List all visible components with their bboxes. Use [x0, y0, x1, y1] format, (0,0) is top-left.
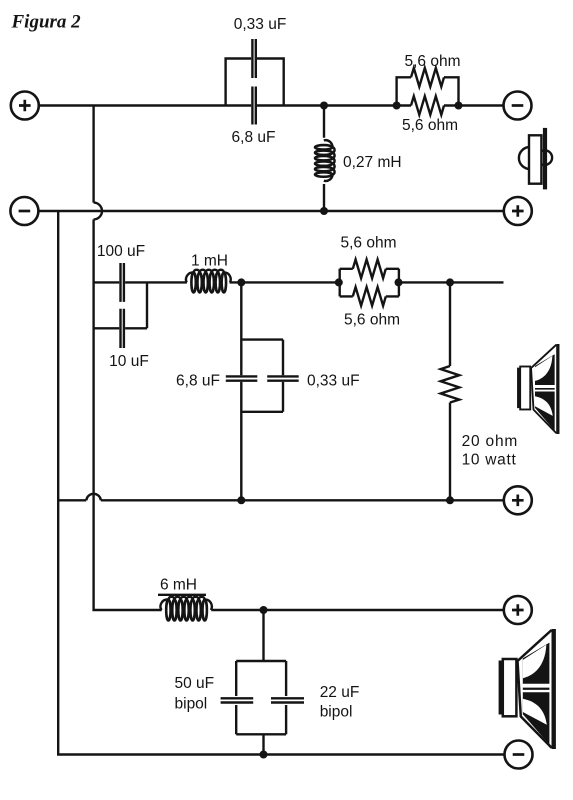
- wire vertical + feed upper part: [92, 106, 94, 203]
- capacitor C 0,33 uF (top loop branch): [226, 39, 284, 106]
- junction node midrange at 20 ohm: [446, 278, 454, 286]
- wire midrange row from + feed to 100uF: [94, 281, 120, 283]
- svg-text:20 ohm: 20 ohm: [462, 433, 518, 450]
- svg-text:10 uF: 10 uF: [109, 353, 149, 370]
- capacitor C 22 uF bipol (right branch): [271, 661, 304, 734]
- wire vertical + feed lower part turning into bass row: [94, 219, 162, 610]
- wire top row from resistor pair to - terminal: [444, 104, 504, 106]
- svg-text:0,33 uF: 0,33 uF: [234, 16, 287, 33]
- resistor 20 ohm 10 watt (vertical): [441, 282, 460, 500]
- svg-text:Figura 2: Figura 2: [11, 12, 82, 33]
- svg-text:0,33 uF: 0,33 uF: [307, 373, 360, 390]
- svg-text:6 mH: 6 mH: [160, 577, 197, 594]
- midrange speaker icon: [517, 344, 559, 434]
- junction node row2 at inductor: [320, 207, 328, 215]
- wire midrange cap block vertical feed: [240, 282, 242, 500]
- wire row2 from - terminal to + terminal: [38, 210, 503, 212]
- svg-text:6,8 uF: 6,8 uF: [176, 373, 220, 390]
- woofer speaker icon: [499, 629, 556, 749]
- capacitor C 0,33 uF (midrange parallel loop): [241, 340, 298, 412]
- inductor L 1 mH (horizontal): [186, 270, 231, 293]
- terminal - bottom right: [505, 741, 533, 769]
- capacitor C 10 uF (parallel branch): [94, 282, 147, 348]
- wire bass row from inductor to + terminal: [211, 609, 504, 611]
- svg-text:6,8 uF: 6,8 uF: [232, 129, 276, 146]
- svg-text:5,6 ohm: 5,6 ohm: [344, 312, 400, 329]
- svg-text:1 mH: 1 mH: [191, 253, 228, 270]
- svg-text:22 uF: 22 uF: [320, 684, 360, 701]
- wire bass cap block to bottom row: [262, 734, 264, 754]
- inductor L 0,27 mH (vertical): [315, 106, 335, 212]
- terminal - top right (tweeter): [504, 92, 532, 120]
- capacitor C 100 uF: [121, 263, 124, 302]
- svg-text:5,6 ohm: 5,6 ohm: [404, 53, 460, 70]
- junction node top resistor pair left: [393, 102, 401, 110]
- svg-text:bipol: bipol: [175, 696, 208, 713]
- wire top row from + terminal to capacitor block: [39, 104, 251, 106]
- resistor 5,6 ohm (top pair, lower, on wire): [411, 96, 444, 115]
- resistor 5,6 ohm (mid pair, lower): [340, 287, 399, 306]
- svg-text:bipol: bipol: [320, 704, 353, 721]
- terminal + right bass: [504, 596, 532, 624]
- junction node bass row at cap block: [260, 606, 268, 614]
- wire midrange row from 100uF to inductor: [125, 281, 187, 283]
- terminal + right midrange return: [504, 486, 532, 514]
- resistor 5,6 ohm (top pair, upper): [397, 68, 459, 106]
- svg-text:100 uF: 100 uF: [97, 243, 145, 260]
- svg-text:5,6 ohm: 5,6 ohm: [340, 235, 396, 252]
- terminal + top left: [11, 92, 39, 120]
- junction node bottom row at cap block: [260, 751, 268, 759]
- tweeter speaker icon: [519, 128, 552, 189]
- terminal + right row2 (tweeter): [504, 197, 532, 225]
- junction node midrange resistor pair left: [335, 278, 343, 286]
- svg-text:10 watt: 10 watt: [462, 452, 517, 469]
- junction node top resistor pair right: [455, 102, 463, 110]
- wire midrange return row left of hop: [58, 499, 86, 501]
- wire bass cap block feed: [262, 610, 264, 661]
- svg-text:0,27 mH: 0,27 mH: [343, 154, 402, 171]
- wire hop of return row over + feed: [86, 494, 101, 500]
- svg-text:50 uF: 50 uF: [175, 675, 215, 692]
- wire midrange row from resistor pair to right: [399, 281, 504, 283]
- capacitor C 50 uF bipol (left branch): [221, 661, 287, 734]
- resistor 5,6 ohm (mid pair, upper): [340, 260, 399, 297]
- junction node return row at cap block: [237, 496, 245, 504]
- wire - bus down left side and bottom row: [58, 211, 504, 755]
- terminal - left row2: [10, 197, 38, 225]
- wire midrange row from inductor to resistor pair: [230, 281, 339, 283]
- wire midrange return row right of hop: [101, 499, 504, 501]
- wire hop of + feed over row2: [94, 203, 102, 220]
- capacitor C 6,8 uF (top, in series): [252, 87, 255, 125]
- junction node midrange resistor pair right: [395, 278, 403, 286]
- wire top row from capacitor block to resistor pair: [257, 104, 411, 106]
- inductor L 6 mH (horizontal, bass) with core bar: [158, 595, 212, 621]
- junction node top wire at inductor tap: [320, 102, 328, 110]
- svg-text:5,6 ohm: 5,6 ohm: [402, 117, 458, 134]
- junction node midrange at cap block: [237, 278, 245, 286]
- capacitor C 6,8 uF (midrange): [226, 376, 257, 380]
- junction node return row at 20 ohm: [446, 496, 454, 504]
